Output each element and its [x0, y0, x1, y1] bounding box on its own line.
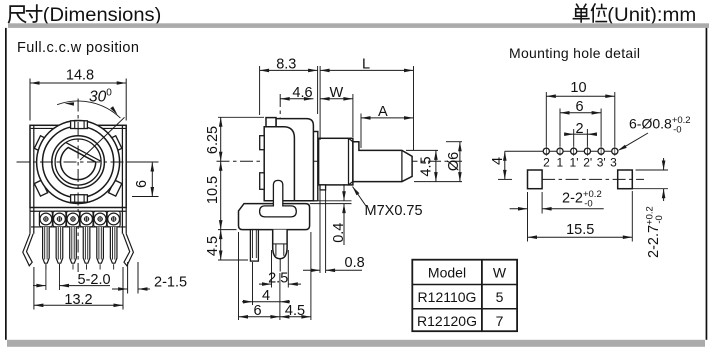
svg-text:4.5: 4.5 [205, 236, 221, 256]
svg-text:3: 3 [610, 156, 617, 170]
svg-text:R12120G: R12120G [417, 313, 477, 329]
svg-text:L: L [362, 56, 370, 72]
svg-text:Ø6: Ø6 [446, 152, 462, 171]
svg-text:4.5: 4.5 [285, 303, 305, 319]
svg-text:(Unit):mm: (Unit):mm [607, 4, 696, 26]
svg-text:4: 4 [262, 288, 270, 304]
svg-text:2: 2 [575, 121, 583, 137]
svg-text:6: 6 [575, 99, 583, 115]
svg-text:6: 6 [254, 303, 262, 319]
svg-text:8.3: 8.3 [276, 56, 296, 72]
svg-text:5: 5 [496, 289, 504, 305]
svg-text:M7X0.75: M7X0.75 [365, 203, 423, 219]
svg-text:3': 3' [597, 156, 606, 170]
svg-text:Mounting hole detail: Mounting hole detail [509, 45, 640, 61]
svg-text:7: 7 [496, 313, 504, 329]
svg-text:4.5: 4.5 [419, 156, 435, 176]
svg-text:6: 6 [134, 180, 150, 188]
svg-text:Model: Model [428, 265, 466, 281]
svg-text:Full.c.c.w position: Full.c.c.w position [17, 40, 139, 56]
svg-text:2-1.5: 2-1.5 [154, 275, 187, 291]
svg-text:6.25: 6.25 [205, 126, 221, 154]
svg-text:10.5: 10.5 [205, 176, 221, 204]
svg-text:1: 1 [556, 156, 563, 170]
svg-text:15.5: 15.5 [566, 222, 594, 238]
svg-text:2.5: 2.5 [268, 270, 288, 286]
svg-text:W: W [493, 265, 507, 281]
svg-text:0.8: 0.8 [345, 255, 365, 271]
svg-text:W: W [330, 85, 344, 101]
svg-text:10: 10 [570, 80, 586, 96]
svg-text:2: 2 [543, 156, 550, 170]
svg-text:A: A [378, 104, 388, 120]
svg-text:(Dimensions): (Dimensions) [43, 4, 161, 26]
svg-text:2': 2' [583, 156, 592, 170]
svg-text:14.8: 14.8 [66, 68, 94, 84]
svg-text:13.2: 13.2 [64, 292, 92, 308]
svg-text:1': 1' [570, 156, 579, 170]
svg-text:R12110G: R12110G [418, 289, 477, 305]
svg-text:4: 4 [490, 157, 506, 165]
svg-text:5-2.0: 5-2.0 [78, 272, 111, 288]
svg-text:0.4: 0.4 [331, 223, 347, 243]
svg-text:4.6: 4.6 [292, 85, 312, 101]
